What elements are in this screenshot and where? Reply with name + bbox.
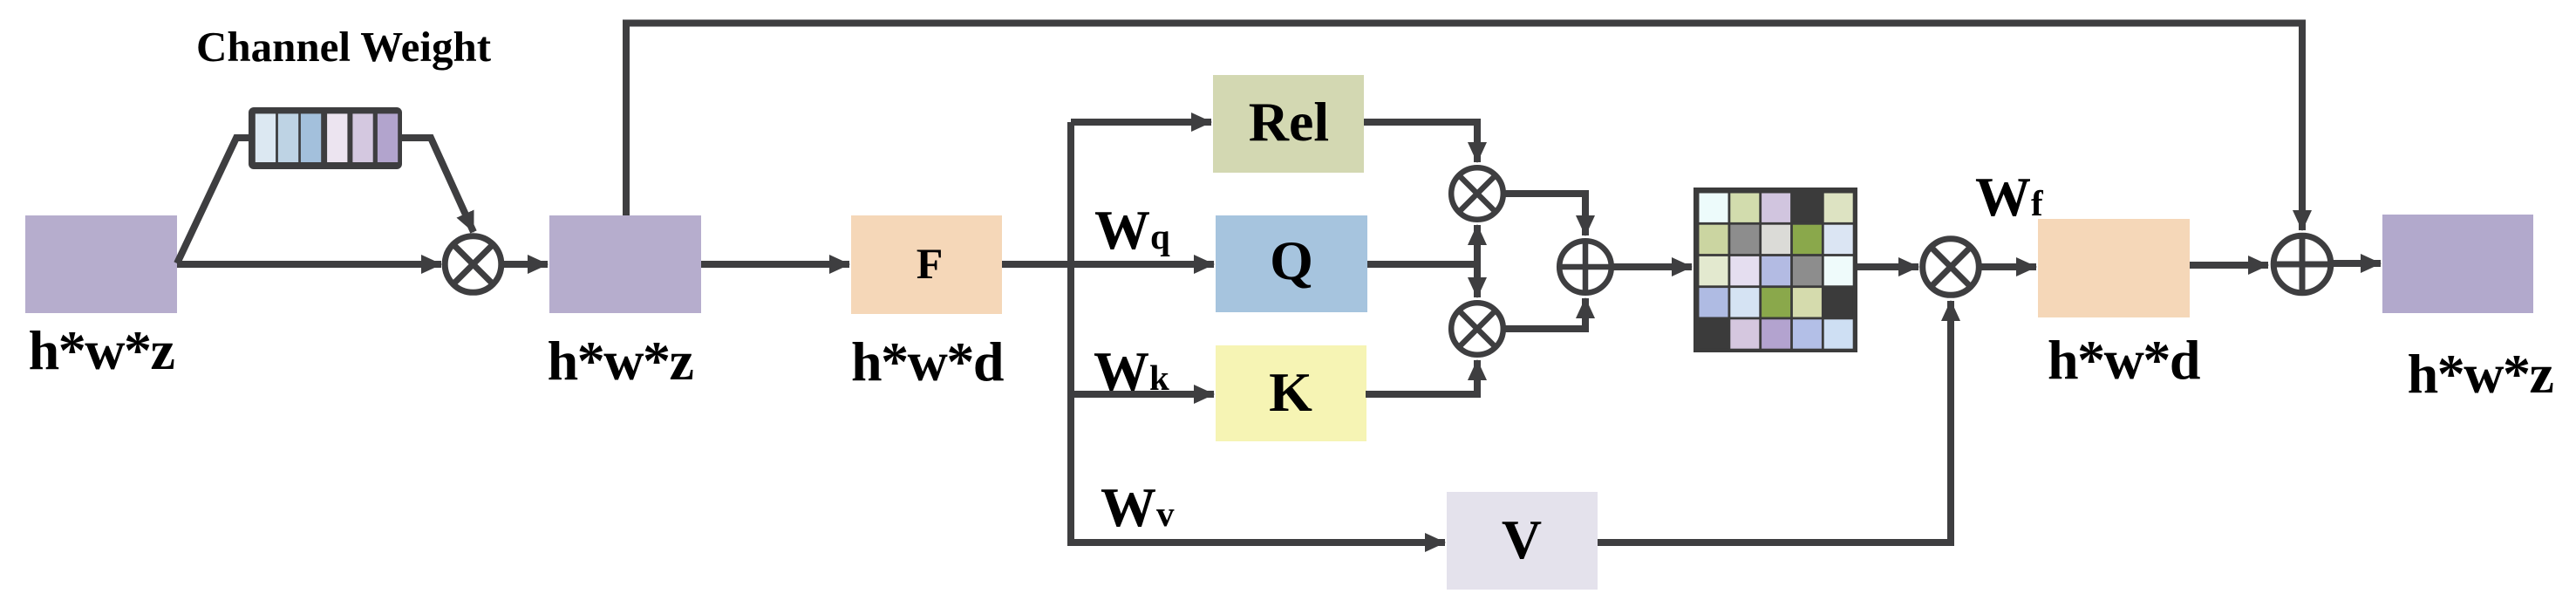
svg-text:Q: Q — [1270, 229, 1313, 291]
wire diagonal down from channel weight strip to multiplier — [400, 138, 474, 232]
wire branch vertical trunk — [1071, 122, 1445, 542]
wire from F to Q box (Wq path) — [1002, 261, 1214, 268]
final output box h*w*z — [2382, 215, 2533, 313]
svg-text:Wk: Wk — [1094, 340, 1169, 402]
K key box — [1216, 345, 1366, 441]
weighted feature map box h*w*z — [549, 215, 701, 313]
V value box — [1447, 492, 1598, 590]
Rel relative position box — [1213, 75, 1364, 173]
svg-text:F: F — [917, 239, 944, 288]
multiplier (circle-times) channel attention — [445, 236, 501, 293]
svg-text:h*w*d: h*w*d — [2048, 329, 2200, 391]
wire bottom multiplier output into adder — [1503, 298, 1585, 329]
wire top feedback line from h*w*z box to output adder — [626, 24, 2302, 231]
wire top multiplier output into adder — [1503, 194, 1585, 235]
wire diagonal up from input box to channel weight strip — [177, 138, 250, 263]
wire from multiplier to weighted box — [504, 261, 548, 268]
wire Rel output into top multiplier — [1364, 122, 1477, 162]
svg-text:Wf: Wf — [1975, 166, 2044, 228]
wire matrix to output multiplier — [1857, 263, 1918, 270]
output feature box h*w*d — [2038, 219, 2190, 317]
output multiplier (circle-times) attention x V — [1923, 239, 1980, 296]
svg-text:h*w*d: h*w*d — [851, 331, 1004, 392]
wire branch to K box (Wk path) — [1071, 391, 1214, 398]
svg-text:Wv: Wv — [1101, 476, 1175, 538]
wire K output into bottom multiplier — [1366, 360, 1477, 394]
top multiplier (circle-times) Rel x Q — [1451, 167, 1503, 220]
wire V output up into output multiplier — [1598, 301, 1951, 542]
wire output multiplier to output feature box — [1981, 263, 2036, 270]
svg-text:Wq: Wq — [1094, 199, 1170, 261]
wire branch to Rel box — [1071, 119, 1211, 126]
svg-text:Rel: Rel — [1249, 91, 1329, 153]
svg-text:V: V — [1502, 508, 1542, 570]
bottom multiplier (circle-times) Q x K — [1451, 303, 1503, 355]
wire adder to attention matrix — [1612, 263, 1692, 270]
wire output feature box to final adder — [2190, 262, 2268, 269]
final adder (circle-plus) residual sum — [2273, 235, 2331, 293]
adder (circle-plus) attention sum — [1559, 241, 1612, 293]
wire Q output horizontal — [1367, 261, 1477, 268]
svg-text:h*w*z: h*w*z — [548, 330, 693, 392]
wire from weighted box to F box — [701, 261, 849, 268]
svg-text:h*w*z: h*w*z — [2408, 343, 2553, 405]
channel weight strip widget — [249, 107, 402, 169]
attention matrix grid — [1693, 188, 1857, 352]
svg-text:h*w*z: h*w*z — [29, 319, 174, 381]
wire Q split down into bottom multiplier — [1474, 264, 1481, 297]
svg-text:K: K — [1269, 361, 1312, 423]
Q query box — [1216, 215, 1367, 312]
input feature map box h*w*z — [25, 215, 177, 313]
wire final adder to output box — [2332, 260, 2381, 267]
F embedding box — [851, 215, 1002, 314]
svg-text:Channel Weight: Channel Weight — [196, 23, 492, 71]
wire from input box to channel multiplier — [177, 261, 441, 268]
wire Q split up into top multiplier — [1474, 225, 1481, 264]
